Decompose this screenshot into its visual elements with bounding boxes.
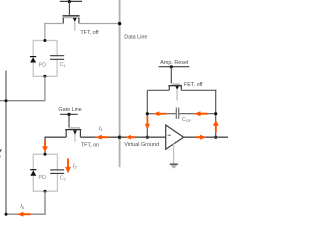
svg-text:FET, off: FET, off — [184, 82, 203, 88]
svg-text:Virtual Ground: Virtual Ground — [124, 142, 159, 148]
svg-text:TFT, off: TFT, off — [80, 30, 99, 36]
svg-text:Data Line: Data Line — [124, 35, 147, 41]
svg-text:C1: C1 — [60, 62, 67, 68]
svg-text:PD: PD — [39, 63, 47, 69]
svg-text:C1: C1 — [60, 175, 67, 181]
svg-text:TFT, on: TFT, on — [81, 143, 99, 149]
svg-text:Amp. Reset: Amp. Reset — [160, 60, 189, 66]
svg-text:Gate Line: Gate Line — [58, 107, 81, 113]
svg-text:PD: PD — [39, 175, 47, 181]
svg-text:CGF: CGF — [182, 117, 192, 123]
svg-text:I1: I1 — [99, 126, 103, 132]
